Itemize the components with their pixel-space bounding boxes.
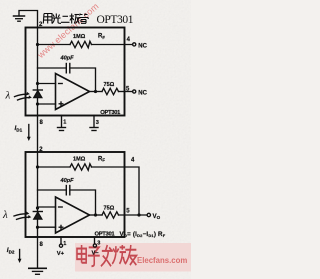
svg-text:VO= (ID2−ID1) RF: VO= (ID2−ID1) RF [120, 231, 166, 238]
svg-text:RF: RF [98, 34, 105, 40]
svg-text:3: 3 [97, 241, 100, 247]
svg-text:V+: V+ [57, 251, 65, 257]
svg-text:OPT301: OPT301 [97, 14, 134, 26]
svg-text:Elecfans.com: Elecfans.com [137, 256, 187, 265]
svg-text:λ: λ [2, 209, 8, 221]
svg-text:75Ω: 75Ω [104, 82, 115, 88]
svg-text:40pF: 40pF [60, 178, 75, 184]
svg-text:1MΩ: 1MΩ [73, 34, 86, 40]
svg-text:RF: RF [98, 156, 105, 162]
svg-text:NC: NC [138, 91, 147, 97]
svg-text:1: 1 [63, 241, 66, 247]
svg-text:V−: V− [92, 250, 100, 256]
svg-text:OPT301: OPT301 [95, 232, 116, 238]
svg-text:OPT301: OPT301 [100, 110, 121, 116]
svg-text:λ: λ [5, 90, 11, 102]
svg-text:40pF: 40pF [60, 56, 75, 62]
svg-text:NC: NC [138, 43, 147, 49]
svg-text:75Ω: 75Ω [104, 205, 115, 211]
svg-text:3: 3 [96, 120, 99, 126]
svg-text:1MΩ: 1MΩ [73, 157, 86, 163]
svg-text:1: 1 [63, 119, 66, 125]
